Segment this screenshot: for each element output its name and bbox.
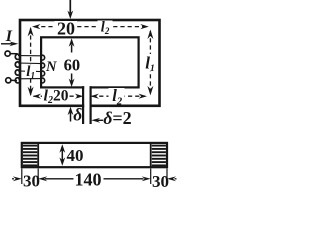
svg-text:20: 20 [57,19,75,39]
svg-text:140: 140 [75,169,102,189]
svg-text:δ: δ [73,105,82,125]
svg-text:40: 40 [67,146,84,165]
svg-text:60: 60 [64,56,81,75]
svg-text:30: 30 [23,171,40,190]
svg-text:δ=2: δ=2 [103,108,132,128]
svg-text:N: N [45,59,57,75]
svg-text:l220: l220 [44,88,69,107]
svg-text:30: 30 [152,172,169,191]
